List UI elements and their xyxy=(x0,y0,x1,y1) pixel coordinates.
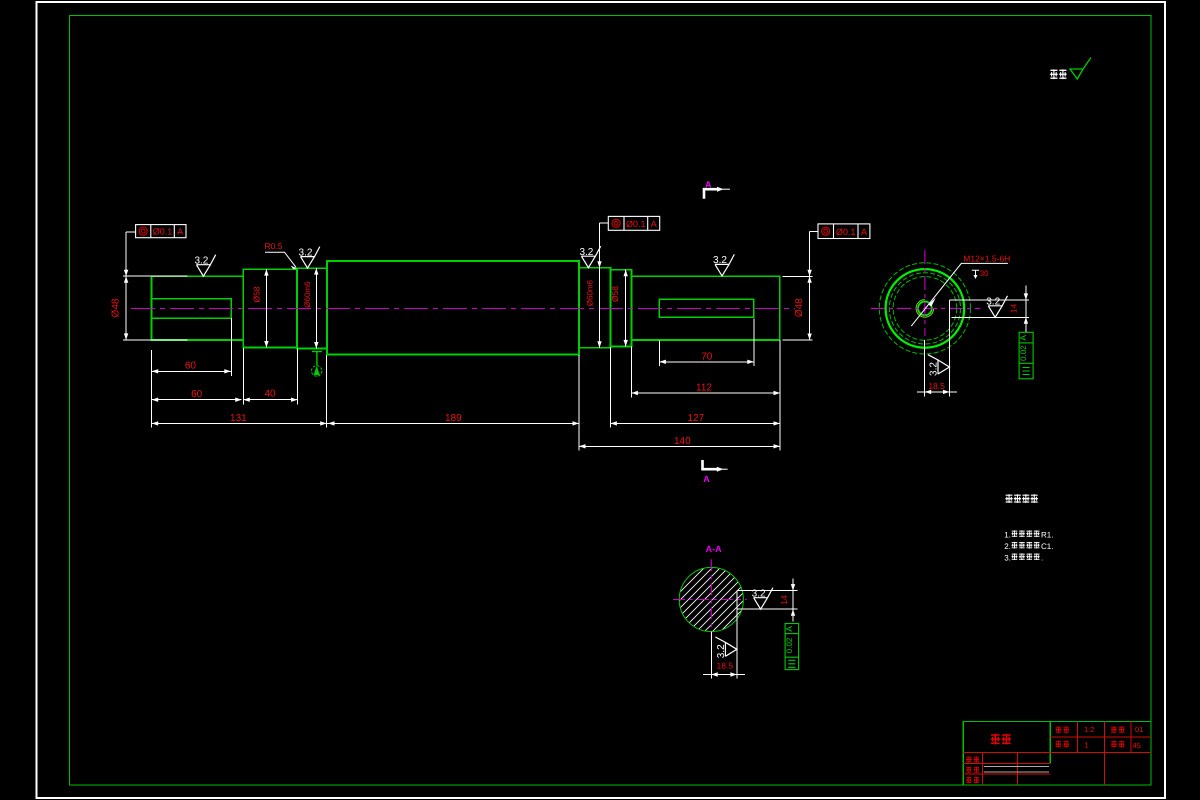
dim arrows main xyxy=(124,261,812,448)
roughness 3.2 on flat xyxy=(986,296,1007,318)
svg-text:1:2: 1:2 xyxy=(1084,725,1094,734)
extension line x753.8 xyxy=(753,319,755,367)
dim line 40 xyxy=(243,399,297,401)
roughness 3.2 section rotated xyxy=(715,637,737,658)
svg-text:Ø58: Ø58 xyxy=(252,286,262,302)
svg-text:0.02: 0.02 xyxy=(1019,345,1028,361)
shaft section 1 xyxy=(152,276,244,340)
svg-text:Ø58: Ø58 xyxy=(610,286,620,302)
dim texts main xyxy=(111,279,806,446)
dia dim line s6 xyxy=(625,270,627,347)
label shenhe xyxy=(966,777,979,783)
svg-text:140: 140 xyxy=(674,436,691,447)
svg-text:M12×1.5-6H: M12×1.5-6H xyxy=(963,253,1010,263)
keyway left xyxy=(152,299,232,319)
section marker bottom xyxy=(703,460,728,484)
roughness 3.2 on section1 xyxy=(194,255,215,277)
extension line x231.4 xyxy=(230,318,232,376)
svg-text:112: 112 xyxy=(696,383,712,394)
green FCF end view xyxy=(1018,332,1033,379)
TITLEBLOCK xyxy=(963,722,1151,786)
svg-text:3.2: 3.2 xyxy=(579,247,593,258)
svg-text:3.2: 3.2 xyxy=(713,255,727,266)
extension line x151.7 xyxy=(151,350,153,428)
svg-text:0.02: 0.02 xyxy=(785,637,794,653)
dim 14 arrows xyxy=(925,293,1028,394)
shaft section 7 xyxy=(631,276,779,340)
svg-text:R0.5: R0.5 xyxy=(265,241,283,251)
svg-text:A-A: A-A xyxy=(706,544,722,554)
end view circles xyxy=(879,263,970,354)
extension line x579 xyxy=(578,355,580,451)
svg-text:131: 131 xyxy=(230,413,247,424)
svg-text:18.5: 18.5 xyxy=(928,381,945,391)
values xyxy=(1084,725,1143,750)
shaft section 2 xyxy=(243,269,297,347)
svg-text:Ø60m6: Ø60m6 xyxy=(586,279,595,306)
dia dim line s1 left xyxy=(125,232,127,340)
svg-text:Ø48: Ø48 xyxy=(794,298,805,317)
R0.5 label xyxy=(265,241,297,269)
keyway right xyxy=(659,299,754,317)
svg-text:C1.: C1. xyxy=(1041,542,1053,551)
depth 30 xyxy=(972,269,989,279)
TECHREQ xyxy=(1004,494,1053,562)
svg-text:A: A xyxy=(1018,335,1028,341)
title block green border xyxy=(963,722,1151,786)
dia dim line s3 xyxy=(315,268,317,348)
tech req title xyxy=(1005,494,1038,503)
svg-text:A: A xyxy=(861,227,867,237)
extension line x297.5 xyxy=(297,349,299,405)
svg-text:189: 189 xyxy=(445,413,462,424)
dim line 70 xyxy=(659,361,753,363)
svg-text:Ø0.1: Ø0.1 xyxy=(153,227,173,237)
extension line x631.4 xyxy=(630,347,632,398)
svg-text:3.2: 3.2 xyxy=(194,255,208,266)
datum symbol green xyxy=(312,352,323,377)
label tuhao xyxy=(1111,727,1125,733)
extension line x659.4 xyxy=(658,341,660,366)
svg-text:Ø60m6: Ø60m6 xyxy=(303,281,312,308)
svg-text:1.: 1. xyxy=(1004,530,1011,539)
svg-text:01: 01 xyxy=(1135,725,1143,734)
svg-text:3.2: 3.2 xyxy=(716,644,727,658)
shaft section 4 xyxy=(327,261,579,355)
svg-text:Ø0.1: Ø0.1 xyxy=(836,227,856,237)
roughness 3.2 rotated end view xyxy=(928,355,950,376)
roughness 3.2 on section7 xyxy=(713,254,734,276)
dim line 140 xyxy=(579,445,780,447)
centerline main xyxy=(131,308,795,310)
svg-text:45: 45 xyxy=(1133,741,1141,750)
section circle hatched xyxy=(679,567,743,631)
svg-text:3.2: 3.2 xyxy=(299,247,313,258)
green FCF section view xyxy=(784,624,799,670)
svg-text:A: A xyxy=(651,219,657,229)
flat extension lines xyxy=(917,286,1029,397)
thread circles xyxy=(918,302,932,316)
svg-text:A: A xyxy=(703,474,710,484)
dia dim line s2 xyxy=(265,269,267,347)
section flat line xyxy=(703,578,798,678)
dia dim line s7 right xyxy=(809,231,811,340)
end view centerlines xyxy=(871,307,980,309)
svg-text:Ø48: Ø48 xyxy=(111,298,122,317)
dim line 127 xyxy=(610,422,780,424)
svg-text:14: 14 xyxy=(1009,304,1019,314)
dim line 189 xyxy=(327,422,579,424)
label zhitu xyxy=(966,767,979,773)
feature control frame 1 xyxy=(136,225,186,238)
section marker top xyxy=(704,180,730,199)
svg-text:.: . xyxy=(1041,553,1043,562)
svg-text:60: 60 xyxy=(191,389,203,400)
svg-text:40: 40 xyxy=(264,389,276,400)
section dim arrows xyxy=(711,584,795,677)
svg-text:R1.: R1. xyxy=(1041,530,1053,539)
section centerlines xyxy=(673,599,747,601)
svg-text:Ø0.1: Ø0.1 xyxy=(626,219,646,229)
M12 thread leader xyxy=(911,253,1010,326)
MAINDIMS xyxy=(123,223,818,450)
label shuliang xyxy=(1055,741,1069,747)
shaft section 5 xyxy=(579,268,610,348)
svg-text:30: 30 xyxy=(980,269,989,278)
dim line 60 step xyxy=(152,399,242,401)
shaft section 6 xyxy=(610,270,631,347)
svg-text:3.2: 3.2 xyxy=(752,588,766,599)
dim line 60 keyway xyxy=(152,370,231,372)
dia dim line s5 xyxy=(599,223,601,348)
svg-text:1: 1 xyxy=(1085,741,1089,750)
svg-text:60: 60 xyxy=(185,361,197,372)
shaft section 3 xyxy=(297,268,327,348)
roughness 3.2 section flat xyxy=(752,588,773,610)
label sheji xyxy=(966,756,979,762)
signature lines xyxy=(984,766,1049,768)
svg-text:18.5: 18.5 xyxy=(717,661,734,671)
svg-text:A: A xyxy=(784,626,794,632)
svg-text:3.: 3. xyxy=(1004,553,1011,562)
label bili xyxy=(1055,727,1069,733)
svg-text:127: 127 xyxy=(687,413,704,424)
extension line x610.4 xyxy=(609,347,611,428)
svg-text:14: 14 xyxy=(779,595,789,605)
svg-text:A: A xyxy=(705,180,712,190)
svg-text:2.: 2. xyxy=(1004,542,1011,551)
extension line x780 xyxy=(779,340,781,451)
dim line 112 xyxy=(631,392,780,394)
roughness 3.2 on section3 xyxy=(299,247,320,269)
feature control frame 3 xyxy=(818,224,870,239)
roughness 3.2 on section5 xyxy=(579,246,600,268)
extension line x243.3 xyxy=(242,348,244,405)
svg-text:A: A xyxy=(177,227,183,237)
svg-text:70: 70 xyxy=(701,351,713,362)
dim line 131 xyxy=(152,422,327,424)
label cailiao xyxy=(1111,741,1125,747)
roughness others top-right (qi yu) xyxy=(1050,58,1091,80)
svg-text:3.2: 3.2 xyxy=(986,297,1000,308)
part name zhu zhou xyxy=(991,734,1011,745)
title block red grid xyxy=(963,722,1151,786)
svg-text:3.2: 3.2 xyxy=(929,362,940,376)
feature control frame 2 xyxy=(608,216,659,230)
extension line x326.7 xyxy=(326,355,328,428)
